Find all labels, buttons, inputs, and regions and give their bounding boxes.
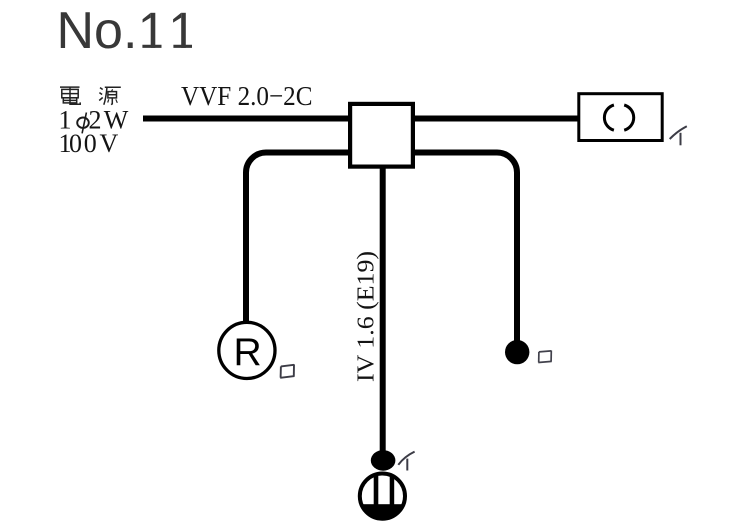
svg-text:100V: 100V [59, 129, 119, 158]
svg-text:VVF 2.0−2C: VVF 2.0−2C [181, 80, 313, 111]
svg-text:IV 1.6 (E19): IV 1.6 (E19) [353, 251, 380, 382]
svg-text:R: R [234, 331, 262, 374]
svg-text:No.: No. [57, 2, 138, 60]
